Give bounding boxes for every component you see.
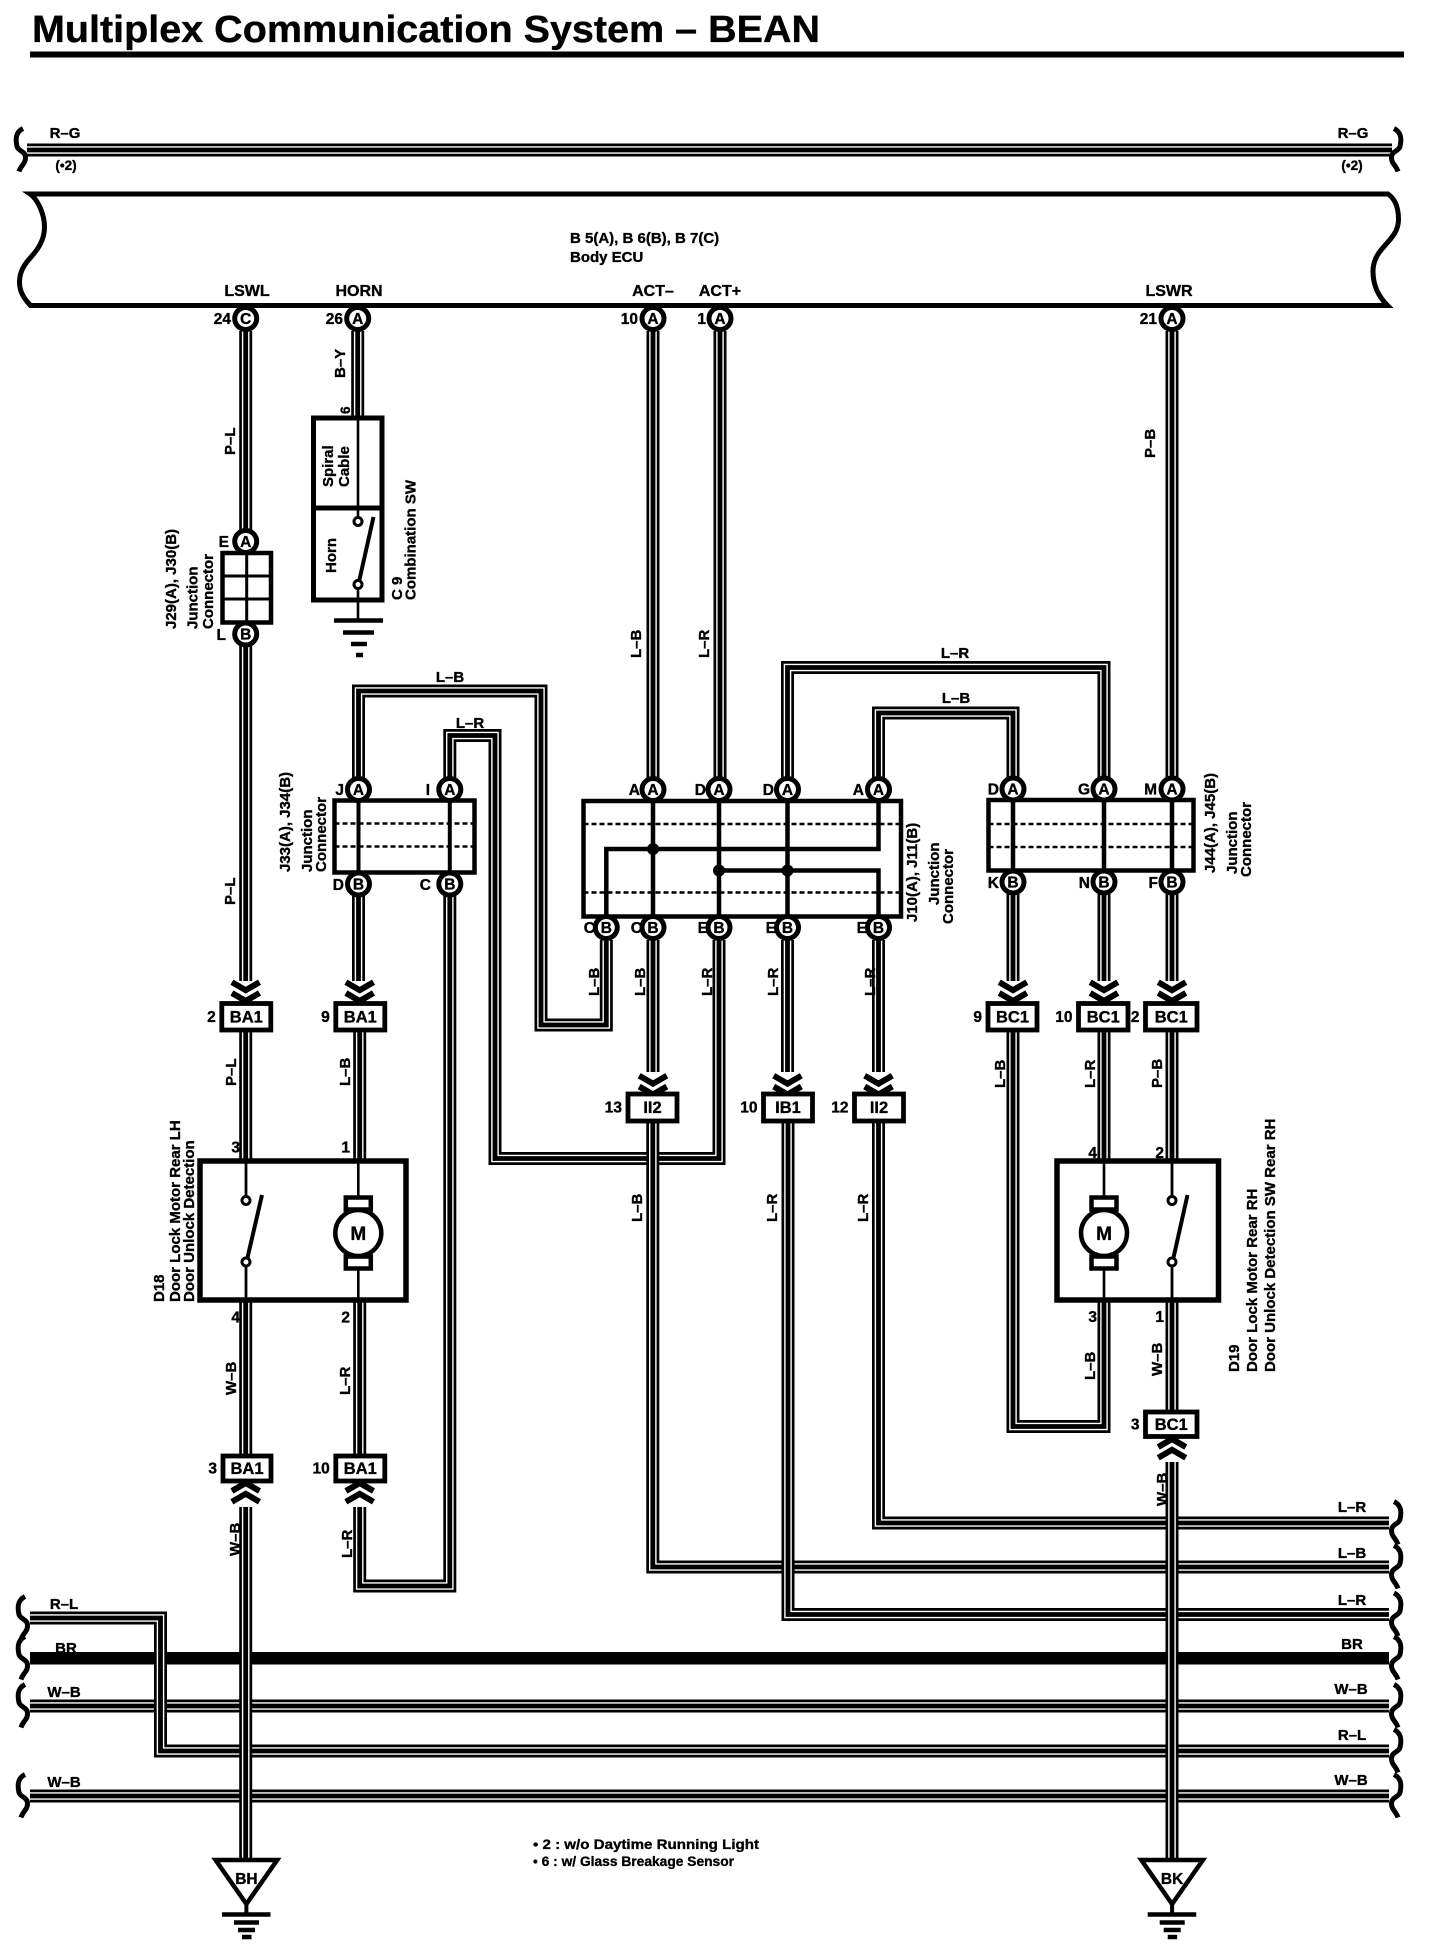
connector 12 II2	[831, 1094, 903, 1121]
wire W-B from D18 pin 4 to BA1-3	[239, 1300, 252, 1456]
junction connector J29(A),J30(B)	[223, 553, 272, 623]
junction connector J33(A),J34(B) box	[335, 801, 475, 873]
svg-text:A: A	[714, 311, 725, 328]
svg-text:3: 3	[231, 1140, 240, 1157]
svg-text:Connector: Connector	[200, 554, 217, 629]
svg-text:4: 4	[231, 1310, 240, 1327]
brace left W-B lower	[18, 1775, 27, 1818]
svg-text:1: 1	[1155, 1309, 1164, 1326]
svg-text:A: A	[629, 782, 640, 799]
arrow into BC1-2	[1158, 982, 1186, 1001]
terminal 1(A) ACT+	[709, 308, 731, 330]
wire L-B loop J33 J(A) to J10 C(B)	[359, 691, 607, 1025]
svg-text:BC1: BC1	[1155, 1008, 1188, 1026]
brace right BR	[1392, 1637, 1401, 1680]
svg-text:N: N	[1079, 875, 1090, 892]
svg-text:BA1: BA1	[344, 1008, 377, 1026]
svg-text:BC1: BC1	[1155, 1416, 1188, 1434]
brace right R-G	[1392, 129, 1401, 172]
svg-text:B: B	[240, 627, 251, 644]
junction dot	[647, 843, 659, 855]
arrow into BC1-10	[1090, 982, 1118, 1001]
svg-text:Connector: Connector	[940, 849, 957, 924]
connector 9 BC1	[973, 1004, 1037, 1031]
terminal J10 E(B)	[708, 917, 730, 939]
svg-text:M: M	[1096, 1224, 1112, 1245]
svg-text:(•2): (•2)	[1341, 158, 1362, 173]
D18 Door Lock Motor Rear LH box	[200, 1161, 406, 1300]
arrow into BC1-9	[999, 982, 1027, 1001]
svg-text:E: E	[219, 534, 229, 551]
connector 10 BA1	[313, 1456, 385, 1481]
svg-text:F: F	[1149, 875, 1158, 892]
svg-text:L–B: L–B	[1082, 1351, 1099, 1380]
svg-text:L–R: L–R	[765, 967, 782, 996]
svg-text:D19: D19	[1226, 1344, 1243, 1372]
terminal J10 C(B)	[642, 917, 664, 939]
svg-text:L–B: L–B	[629, 1193, 646, 1222]
brace left BR	[18, 1637, 27, 1680]
svg-text:A: A	[240, 534, 251, 551]
terminal J10 D(A)	[708, 779, 730, 801]
brace left R-L	[18, 1597, 27, 1640]
svg-text:26: 26	[326, 311, 344, 328]
svg-text:E: E	[857, 920, 867, 937]
terminal J44 K(B)	[1002, 871, 1024, 893]
svg-text:9: 9	[973, 1009, 982, 1026]
svg-text:(•2): (•2)	[55, 158, 76, 173]
svg-text:Connector: Connector	[313, 797, 330, 872]
connector 2 BC1	[1131, 1004, 1197, 1031]
svg-text:A: A	[1098, 782, 1109, 799]
arrow into BC1-3 (from below)	[1158, 1439, 1186, 1458]
svg-text:Cable: Cable	[336, 446, 353, 487]
connector 13 II2	[605, 1094, 677, 1121]
svg-text:Horn: Horn	[323, 538, 340, 573]
svg-text:A: A	[352, 311, 363, 328]
terminal J10 E(B)	[777, 917, 799, 939]
svg-text:P–L: P–L	[222, 877, 239, 905]
svg-text:B: B	[713, 920, 724, 937]
svg-text:2: 2	[1131, 1009, 1140, 1026]
svg-text:Door Unlock Detection: Door Unlock Detection	[181, 1140, 198, 1302]
wire L-B loop BC1-9 to D19 pin 3	[1013, 1030, 1104, 1427]
svg-text:A: A	[713, 782, 724, 799]
ground BK	[1141, 1860, 1203, 1937]
svg-text:ACT+: ACT+	[699, 283, 741, 300]
terminal J10 E(B)	[868, 917, 890, 939]
svg-text:L–R: L–R	[855, 1193, 872, 1222]
svg-text:P–B: P–B	[1142, 429, 1159, 458]
brace right W-B 2	[1392, 1775, 1401, 1818]
wire L-R from J10 E(B) to connector II2-12	[872, 940, 885, 1072]
wire L-B ACT- from Body ECU 10(A) to J10 A(A)	[647, 331, 660, 788]
connector 10 IB1	[740, 1094, 812, 1121]
svg-text:W–B: W–B	[223, 1362, 240, 1396]
D19 Door Lock Motor Rear RH box	[1057, 1161, 1219, 1300]
D18 motor M	[335, 1161, 381, 1300]
terminal 10(A) ACT-	[642, 308, 664, 330]
svg-text:Multiplex Communication System: Multiplex Communication System – BEAN	[32, 9, 820, 51]
svg-text:Spiral: Spiral	[320, 445, 337, 487]
svg-text:Connector: Connector	[1238, 802, 1255, 877]
terminal J44 G(A)	[1093, 778, 1115, 800]
terminal J44 N(B)	[1093, 871, 1115, 893]
svg-text:B: B	[353, 877, 364, 894]
arrow into BA1-2	[232, 982, 260, 1001]
junction connector J10(A),J11(B) box	[584, 801, 902, 917]
svg-text:P–L: P–L	[222, 427, 239, 455]
svg-text:R–G: R–G	[1338, 125, 1369, 142]
D19 door unlock detection switch	[1168, 1161, 1188, 1300]
svg-text:A: A	[647, 782, 658, 799]
svg-text:A: A	[1166, 782, 1177, 799]
svg-text:W–B: W–B	[47, 1684, 81, 1701]
wire L-B from BA1-9 to D18 pin 1	[353, 1030, 366, 1161]
svg-text:G: G	[1078, 782, 1090, 799]
svg-text:E: E	[766, 920, 776, 937]
svg-text:1: 1	[341, 1140, 350, 1157]
svg-text:9: 9	[321, 1009, 330, 1026]
D19 motor M	[1081, 1161, 1127, 1300]
wire R-L bus (left end, steps down, to right)	[30, 1618, 1389, 1751]
svg-text:BK: BK	[1161, 1871, 1184, 1888]
wire L-R from J10 E(B) to connector IB1-10	[781, 940, 794, 1072]
svg-text:C: C	[420, 877, 431, 894]
svg-text:K: K	[988, 875, 1000, 892]
svg-text:3: 3	[208, 1461, 217, 1478]
wire L-B from connector II2-13 to right bus	[653, 1121, 1389, 1567]
wire W-B from BA1-3 to ground BH	[239, 1507, 252, 1860]
svg-text:BA1: BA1	[230, 1008, 263, 1026]
svg-text:10: 10	[621, 311, 638, 328]
svg-text:J10(A), J11(B): J10(A), J11(B)	[904, 823, 921, 922]
svg-text:L–B: L–B	[436, 669, 465, 686]
svg-text:A: A	[782, 782, 793, 799]
svg-text:ACT–: ACT–	[632, 283, 674, 300]
svg-text:W–B: W–B	[227, 1523, 244, 1557]
terminal J29 E(A)	[235, 531, 257, 553]
brace left W-B	[18, 1685, 27, 1728]
brace left R-G	[16, 129, 25, 172]
svg-text:2: 2	[1155, 1145, 1164, 1162]
svg-text:BA1: BA1	[344, 1460, 377, 1478]
svg-text:B: B	[601, 920, 612, 937]
svg-text:BR: BR	[55, 1640, 77, 1657]
svg-text:R–G: R–G	[50, 125, 81, 142]
wire P-L from BA1-2 to D18 pin 3	[239, 1030, 252, 1161]
svg-text:IB1: IB1	[775, 1099, 801, 1117]
terminal J44 D(A)	[1002, 778, 1024, 800]
svg-text:P–B: P–B	[1149, 1059, 1166, 1088]
D18 door unlock detection switch	[242, 1161, 262, 1300]
terminal 24(C) LSWL	[235, 308, 257, 330]
svg-text:B: B	[444, 877, 455, 894]
svg-text:E: E	[698, 920, 708, 937]
svg-text:LSWR: LSWR	[1145, 283, 1193, 300]
junction dot	[782, 865, 794, 877]
brace right R-L	[1392, 1730, 1401, 1773]
Body ECU box B5(A),B6(B),B7(C)	[20, 194, 1399, 306]
wire P-B from J44 F(B) to BC1-2	[1166, 894, 1179, 981]
connector 9 BA1	[321, 1004, 385, 1031]
svg-text:C: C	[584, 920, 595, 937]
arrow into BA1-10 (from below)	[346, 1483, 374, 1502]
terminal J10 C(B)	[595, 917, 617, 939]
svg-text:BR: BR	[1341, 1636, 1363, 1653]
svg-text:D18: D18	[151, 1274, 168, 1302]
svg-text:B: B	[1007, 875, 1018, 892]
svg-text:A: A	[353, 782, 364, 799]
wire L-B from J33 D(B) to BA1-9	[352, 895, 365, 981]
terminal J33 C(B)	[439, 873, 461, 895]
svg-text:2: 2	[341, 1310, 350, 1327]
svg-text:R–L: R–L	[1338, 1727, 1366, 1744]
terminal J29 L(B)	[235, 623, 257, 645]
svg-text:L–R: L–R	[764, 1193, 781, 1222]
svg-text:10: 10	[313, 1461, 330, 1478]
svg-text:L–B: L–B	[1338, 1545, 1367, 1562]
wire P-L from Body ECU 24(C) to J29 E(A)	[239, 331, 252, 531]
svg-text:W–B: W–B	[1334, 1681, 1368, 1698]
svg-text:10: 10	[1055, 1009, 1072, 1026]
svg-text:Door Lock Motor Rear RH: Door Lock Motor Rear RH	[1244, 1189, 1261, 1372]
wire P-B from BC1-2 to D19 pin 2	[1166, 1030, 1179, 1161]
brace right L-B	[1392, 1546, 1401, 1589]
terminal J10 D(A)	[777, 779, 799, 801]
terminal J33 J(A)	[348, 779, 370, 801]
terminal 26(A) HORN	[347, 308, 369, 330]
svg-text:A: A	[444, 782, 455, 799]
svg-text:A: A	[853, 782, 864, 799]
svg-text:B: B	[647, 920, 658, 937]
wire L-R from connector II2-12 to right bus	[879, 1121, 1390, 1523]
svg-text:3: 3	[1131, 1416, 1140, 1433]
svg-text:Combination SW: Combination SW	[403, 479, 420, 600]
svg-text:W–B: W–B	[1149, 1343, 1166, 1377]
svg-text:C: C	[240, 311, 251, 328]
svg-text:6: 6	[338, 406, 353, 414]
svg-text:B: B	[873, 920, 884, 937]
svg-text:D: D	[763, 782, 774, 799]
svg-text:I: I	[426, 782, 430, 799]
svg-text:L–R: L–R	[337, 1366, 354, 1395]
svg-text:II2: II2	[870, 1099, 888, 1117]
arrow into BA1-9	[346, 982, 374, 1001]
svg-text:L–R: L–R	[862, 967, 879, 996]
brace right L-R 2	[1392, 1593, 1401, 1636]
svg-text:L–R: L–R	[699, 967, 716, 996]
svg-text:A: A	[647, 311, 658, 328]
svg-text:B: B	[1166, 875, 1177, 892]
ground under C9	[334, 621, 383, 656]
svg-text:M: M	[350, 1224, 366, 1245]
wire BR bus (thick)	[30, 1652, 1389, 1665]
svg-text:M: M	[1144, 782, 1157, 799]
svg-text:J33(A), J34(B): J33(A), J34(B)	[277, 772, 294, 872]
svg-text:21: 21	[1140, 311, 1158, 328]
wire L-R from connector IB1-10 to right bus	[788, 1121, 1389, 1615]
wire L-B from J10 C(B) to connector II2-13	[647, 940, 660, 1072]
svg-text:HORN: HORN	[335, 283, 382, 300]
svg-text:L–R: L–R	[941, 645, 970, 662]
svg-text:W–B: W–B	[1154, 1473, 1171, 1507]
svg-text:L–R: L–R	[1338, 1499, 1367, 1516]
svg-text:L–R: L–R	[456, 715, 485, 732]
connector 2 BA1	[207, 1004, 271, 1031]
ground BH	[216, 1860, 278, 1937]
svg-text:B: B	[782, 920, 793, 937]
svg-text:L–B: L–B	[992, 1059, 1009, 1088]
svg-text:W–B: W–B	[47, 1774, 81, 1791]
svg-text:10: 10	[740, 1100, 757, 1117]
arrow into II2-12	[865, 1076, 893, 1095]
svg-text:L–R: L–R	[696, 629, 713, 658]
terminal J33 D(B)	[348, 873, 370, 895]
svg-text:BC1: BC1	[996, 1008, 1029, 1026]
combination switch C9 box	[314, 418, 383, 600]
svg-text:BC1: BC1	[1087, 1008, 1120, 1026]
svg-text:D: D	[988, 782, 999, 799]
svg-text:D: D	[333, 877, 344, 894]
wire L-R ACT+ from Body ECU 1(A) to J10 D(A)	[714, 331, 727, 788]
wire W-B from D19 pin 1 to BC1-3	[1166, 1300, 1179, 1412]
svg-text:Body ECU: Body ECU	[570, 249, 643, 266]
svg-text:R–L: R–L	[50, 1596, 78, 1613]
wire L-B from J10 A(A) to J44 D(A)	[879, 713, 1014, 788]
svg-text:Junction: Junction	[185, 567, 202, 630]
svg-text:BH: BH	[235, 1871, 257, 1888]
wire W-B from BC1-3 to ground BK	[1166, 1462, 1179, 1860]
wire L-R from J10 D(A) to J44 G(A)	[788, 668, 1105, 789]
terminal J10 A(A)	[642, 779, 664, 801]
svg-text:J29(A), J30(B): J29(A), J30(B)	[163, 529, 180, 629]
connector 3 BC1	[1131, 1412, 1197, 1437]
svg-text:L–B: L–B	[337, 1057, 354, 1086]
brace right W-B	[1392, 1685, 1401, 1728]
svg-text:L: L	[217, 627, 226, 644]
svg-text:• 6 : w/ Glass Breakage Senso: • 6 : w/ Glass Breakage Sensor	[533, 1853, 735, 1869]
svg-text:B: B	[1098, 875, 1109, 892]
svg-text:• 2 : w/o Daytime Running Lig: • 2 : w/o Daytime Running Light	[533, 1836, 759, 1852]
svg-text:13: 13	[605, 1100, 623, 1117]
wire W-B bus (upper)	[30, 1700, 1389, 1713]
wire R-G bus (top)	[27, 144, 1392, 157]
wire L-R from BC1-10 to D19 pin 4	[1098, 1030, 1111, 1161]
svg-text:D: D	[695, 782, 706, 799]
svg-text:C: C	[631, 920, 642, 937]
wire L-R from D18 pin 2 to BA1-10	[353, 1300, 366, 1456]
svg-text:L–R: L–R	[1338, 1592, 1367, 1609]
terminal J10 A(A)	[868, 779, 890, 801]
arrow into II2-13	[639, 1076, 667, 1095]
connector 3 BA1	[208, 1456, 271, 1481]
svg-text:12: 12	[831, 1100, 848, 1117]
svg-text:J44(A), J45(B): J44(A), J45(B)	[1202, 773, 1219, 873]
svg-text:A: A	[1007, 782, 1018, 799]
svg-text:P–L: P–L	[223, 1058, 240, 1086]
svg-text:L–R: L–R	[1082, 1059, 1099, 1088]
svg-text:L–R: L–R	[339, 1529, 356, 1558]
svg-text:L–B: L–B	[632, 967, 649, 996]
svg-text:3: 3	[1088, 1309, 1097, 1326]
svg-text:24: 24	[214, 311, 232, 328]
wire B-Y from Body ECU 26(A) to spiral cable	[351, 331, 364, 418]
terminal J44 M(A)	[1161, 778, 1183, 800]
svg-text:LSWL: LSWL	[224, 283, 270, 300]
svg-text:A: A	[1166, 311, 1177, 328]
terminal J33 I(A)	[439, 779, 461, 801]
wire W-B bus (lower)	[30, 1790, 1389, 1803]
wire P-B LSWR from Body ECU 21(A) to J44 M(A)	[1166, 331, 1179, 788]
svg-text:J: J	[335, 782, 344, 799]
svg-text:BA1: BA1	[230, 1460, 263, 1478]
wire L-R loop J33 I(A) to J10 E(B)	[450, 736, 719, 1159]
arrow into IB1-10	[774, 1076, 802, 1095]
wire P-L from J29 L(B) to connector BA1-2	[239, 644, 252, 981]
wire L-R from J44 N(B) to BC1-10	[1098, 894, 1111, 981]
terminal 21(A) LSWR	[1161, 308, 1183, 330]
svg-text:A: A	[873, 782, 884, 799]
brace right L-R	[1392, 1502, 1401, 1545]
junction connector J44(A),J45(B) box	[989, 800, 1194, 871]
connector 10 BC1	[1055, 1004, 1128, 1031]
svg-text:B 5(A), B 6(B), B 7(C): B 5(A), B 6(B), B 7(C)	[570, 230, 719, 247]
svg-text:B–Y: B–Y	[332, 349, 349, 378]
svg-text:L–B: L–B	[942, 690, 971, 707]
svg-text:L–B: L–B	[586, 967, 603, 996]
svg-text:4: 4	[1088, 1145, 1097, 1162]
svg-text:II2: II2	[643, 1099, 661, 1117]
spiral cable internal wire	[357, 420, 360, 517]
terminal J44 F(B)	[1161, 871, 1183, 893]
horn switch	[354, 517, 374, 589]
wire L-B from J44 K(B) to BC1-9	[1007, 894, 1020, 981]
wire L-R from J33 C(B) down and left to BA1-10	[360, 895, 450, 1586]
svg-text:L–B: L–B	[628, 629, 645, 658]
svg-text:2: 2	[207, 1009, 216, 1026]
arrow into BA1-3 (from below)	[232, 1483, 260, 1502]
svg-text:1: 1	[697, 311, 706, 328]
junction dot	[713, 865, 725, 877]
svg-text:Door Unlock Detection SW Rear: Door Unlock Detection SW Rear RH	[1262, 1119, 1279, 1372]
svg-text:W–B: W–B	[1334, 1772, 1368, 1789]
